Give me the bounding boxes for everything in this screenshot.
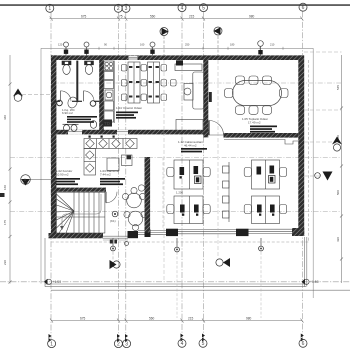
cluster B PC glyphs	[257, 166, 276, 184]
svg-text:+1.50: +1.50	[310, 280, 319, 284]
desk1 chairs left	[121, 65, 127, 101]
building bottom wall left segment	[49, 233, 104, 238]
washbasin pair bottom	[63, 124, 79, 131]
building right wall	[298, 55, 304, 236]
level marker right +1.50	[302, 279, 319, 285]
left edge mark	[0, 193, 5, 197]
PC marks on desks	[129, 66, 159, 98]
door gap in y130 wall at corridor	[68, 130, 82, 135]
bottom wall pier 3	[236, 229, 249, 236]
svg-text:210: 210	[270, 43, 275, 47]
grid bubble 2 bottom	[114, 340, 122, 348]
cluster B chairs	[244, 168, 287, 177]
cluster C PC glyphs	[180, 205, 199, 216]
lavatory door knob circles	[57, 100, 63, 106]
svg-text:2: 2	[117, 6, 120, 12]
svg-text:560: 560	[149, 316, 155, 320]
svg-text:120: 120	[58, 43, 63, 47]
small dim text above roof line	[58, 43, 275, 47]
cluster D PC glyphs	[257, 205, 275, 216]
elevation marker bottom 2	[216, 258, 230, 267]
svg-text:675: 675	[81, 15, 87, 19]
bottom wall pier 2	[166, 229, 178, 236]
grid bubble 6 bottom	[299, 339, 307, 347]
sheet top border line	[0, 4, 350, 6]
right margin dash y176	[304, 175, 322, 177]
partition junction block	[145, 230, 151, 238]
svg-text:230: 230	[3, 260, 7, 265]
coffee table 1	[107, 158, 119, 171]
toilet stall 1	[62, 61, 71, 74]
left dimension line	[9, 55, 12, 284]
cluster A chairs	[167, 168, 210, 177]
section stem line A down	[163, 60, 165, 281]
svg-text:4: 4	[181, 341, 184, 347]
grid axis line 1	[50, 13, 52, 340]
roof vent lollipop 4	[258, 41, 264, 56]
stairs	[56, 192, 105, 233]
svg-text:6.90 m2: 6.90 m2	[62, 111, 73, 115]
grid bubble 6 top	[299, 3, 307, 11]
entrance door marks	[110, 240, 113, 244]
downspout marker 1	[111, 238, 116, 251]
section marker left A down	[21, 175, 51, 186]
bottom arrow marks above bubbles	[49, 334, 304, 343]
open office desk cluster B	[252, 160, 280, 189]
leader x177	[176, 238, 178, 318]
top dimension line	[50, 17, 304, 21]
roof outline thin rectangle	[41, 48, 313, 298]
round table 2	[124, 211, 147, 230]
horizontal axis dash line y157	[10, 157, 341, 159]
label 1.05	[242, 117, 268, 125]
svg-text:+1.50: +1.50	[53, 280, 62, 284]
spec block 1.12	[181, 148, 207, 152]
svg-text:TD: TD	[104, 121, 111, 126]
svg-text:3: 3	[125, 341, 128, 347]
svg-text:46.44 m2: 46.44 m2	[184, 144, 197, 148]
bottom dimension line	[50, 319, 304, 323]
svg-text:675: 675	[80, 316, 86, 320]
WC stall divider 1	[76, 61, 78, 103]
terrace right edge double	[304, 237, 306, 287]
svg-text:75: 75	[119, 15, 123, 19]
svg-text:1: 1	[48, 6, 51, 12]
grid bubble 2 top	[114, 4, 122, 12]
label 1.02 koridor	[56, 169, 72, 177]
left dimension numbers	[3, 115, 7, 265]
svg-text:5: 5	[202, 341, 205, 347]
svg-text:430: 430	[336, 237, 340, 242]
top dimension numbers	[81, 15, 255, 19]
building left wall	[51, 55, 56, 238]
label 1.Kq WC	[62, 108, 76, 115]
svg-text:440: 440	[3, 115, 7, 120]
canopy dashed vertical right	[308, 60, 310, 242]
north arrow left	[13, 89, 51, 102]
desk2 chairs right	[161, 65, 176, 101]
section marker top A	[160, 28, 169, 56]
open office desk cluster C	[174, 196, 203, 224]
cluster D chairs	[244, 205, 287, 214]
grid bubble 4 bottom	[178, 339, 186, 347]
office middle cabinets	[223, 162, 230, 222]
section stem line B down	[217, 60, 219, 257]
svg-text:980: 980	[246, 316, 252, 320]
kitchen counter strip	[104, 61, 114, 123]
grid axis line 6	[301, 12, 303, 340]
door gap in y130 wall at 1.04	[117, 130, 128, 135]
svg-text:6: 6	[302, 5, 305, 11]
svg-text:215: 215	[189, 15, 195, 19]
level marker left +1.50	[44, 279, 61, 285]
wall WC east (kitchen west)	[99, 55, 104, 133]
spec block 1.02	[56, 178, 80, 185]
waiting door arc	[105, 192, 107, 203]
grid bubble 3 top	[122, 4, 130, 12]
right margin dash y110	[304, 109, 342, 111]
coffee table 2	[122, 155, 133, 166]
svg-text:(K1): (K1)	[110, 219, 116, 223]
grid axis line 4	[181, 12, 183, 339]
sofa left column waiting	[84, 149, 96, 176]
bottom wall window 2	[178, 230, 236, 234]
manager L desk	[184, 72, 204, 109]
cluster C chairs	[167, 205, 210, 214]
svg-text:215: 215	[188, 316, 194, 320]
spec block WC	[67, 116, 97, 123]
top wall door gap	[129, 56, 138, 60]
grid bubble 1 top	[46, 4, 54, 12]
roof vent lollipop 2	[84, 42, 89, 55]
elevation marker right down	[315, 172, 333, 181]
roof vent lollipop 3	[150, 42, 155, 55]
grid bubble 1 bottom	[48, 340, 56, 348]
leader x261	[260, 238, 262, 318]
svg-text:545: 545	[336, 85, 340, 90]
svg-text:500: 500	[336, 190, 340, 195]
svg-text:560: 560	[150, 15, 156, 19]
svg-text:250: 250	[185, 43, 190, 47]
svg-text:4: 4	[181, 5, 184, 11]
stair walk line	[62, 194, 101, 228]
label 1.12 calisma	[178, 140, 203, 148]
meeting room south wall	[224, 133, 299, 138]
pedestal basin oval	[66, 96, 78, 109]
toilet stall 2	[85, 61, 94, 74]
leader x113	[112, 238, 114, 260]
horizontal axis dash line y211	[10, 211, 341, 213]
grid bubble 5 bottom	[199, 339, 207, 347]
desk1 chairs right / desk2 chairs left	[141, 65, 147, 101]
bottom wall pier 1	[128, 231, 139, 238]
svg-text:7.44 m2: 7.44 m2	[100, 173, 111, 177]
room 1.04 desk 1	[128, 62, 140, 103]
bottom wall right segment	[292, 228, 304, 236]
horizontal axis dash line y282	[0, 281, 350, 283]
svg-text:180: 180	[230, 43, 235, 47]
downspout extra small	[125, 242, 129, 246]
downspout marker 2	[175, 238, 180, 252]
svg-text:2: 2	[117, 341, 120, 347]
right dimension numbers	[336, 85, 340, 242]
wall under WC lavatory y130	[51, 130, 208, 135]
grid axis line 5	[203, 12, 205, 339]
building top wall	[51, 55, 304, 60]
manager sideboard	[175, 64, 202, 71]
svg-text:5: 5	[202, 5, 205, 11]
grid bubble 3 bottom	[123, 340, 131, 348]
door circle near office	[138, 185, 144, 191]
svg-text:90: 90	[104, 43, 107, 47]
roof vent lollipop 1	[64, 42, 69, 55]
spec block 1.04	[116, 112, 138, 119]
svg-text:10.90 m2: 10.90 m2	[56, 173, 69, 177]
svg-text:1.04 Yonetici Odasi: 1.04 Yonetici Odasi	[116, 106, 142, 110]
terrace left edge	[44, 238, 46, 287]
grid axis line 3	[125, 13, 127, 340]
corner basin right	[90, 121, 96, 129]
right margin dash y52	[304, 51, 342, 53]
label 1.03 danisma	[100, 169, 119, 177]
meeting chairs bottom	[236, 106, 272, 115]
svg-text:1: 1	[50, 341, 53, 347]
sofa top row waiting	[84, 139, 137, 149]
svg-text:980: 980	[249, 15, 255, 19]
WC stall doors arcs	[60, 91, 62, 102]
right dimension line	[340, 55, 343, 283]
meeting table	[233, 81, 282, 106]
meeting room west wall	[203, 55, 208, 137]
WC stalls partition wall y100	[56, 100, 99, 102]
wall dots above sofa	[89, 136, 115, 138]
right margin dash y142	[304, 141, 333, 143]
meeting room door arc	[209, 121, 224, 136]
svg-text:3: 3	[125, 6, 128, 12]
entrance threshold lines	[103, 235, 128, 237]
elevation marker right up	[332, 137, 342, 152]
bottom wall window 3	[249, 229, 293, 233]
label 1.04	[116, 106, 142, 110]
svg-text:175: 175	[3, 220, 7, 225]
open office desk cluster D	[252, 196, 280, 224]
roof line ticks	[66, 47, 283, 50]
stair label K1	[110, 211, 118, 223]
svg-text:6: 6	[302, 341, 305, 347]
spec block 1.03	[100, 178, 125, 185]
svg-text:17.49 m2: 17.49 m2	[248, 121, 261, 125]
svg-text:160: 160	[3, 185, 7, 190]
downspout marker 3	[259, 238, 264, 251]
canopy dashed horizontal below building	[51, 241, 309, 243]
grid axis line 2	[118, 13, 120, 340]
meeting chair left end	[225, 89, 234, 98]
long ground line y290	[51, 289, 350, 291]
section marker top B	[214, 27, 223, 55]
TV board on meeting wall	[209, 92, 212, 102]
low cabinet 1.04 south	[176, 120, 203, 133]
bottom wall window 1	[138, 231, 166, 235]
svg-text:160: 160	[140, 43, 145, 47]
bottom dimension numbers	[80, 316, 252, 320]
corridor partition wall vertical	[145, 157, 151, 233]
grid bubble 5 top	[200, 4, 208, 12]
cluster A PC glyphs	[180, 166, 202, 184]
office dashed ref line x163	[162, 158, 164, 230]
open office north boundary line	[224, 140, 298, 145]
waiting wall y188	[51, 188, 106, 192]
svg-text:1.200: 1.200	[176, 191, 183, 195]
TD electric box	[103, 120, 113, 127]
terrace bottom double line	[45, 283, 306, 285]
horizontal axis dash line y83	[51, 82, 341, 84]
round table 1	[122, 187, 145, 207]
grid bubble 4 top	[178, 4, 186, 12]
meeting chair right end	[280, 89, 289, 98]
room 1.04 desk 2	[148, 62, 160, 103]
column at door top wall	[176, 60, 183, 65]
spec block 1.05	[250, 126, 277, 133]
open office desk cluster A	[174, 160, 203, 189]
meeting chairs top	[236, 76, 272, 85]
elevation marker bottom 1	[110, 260, 121, 269]
